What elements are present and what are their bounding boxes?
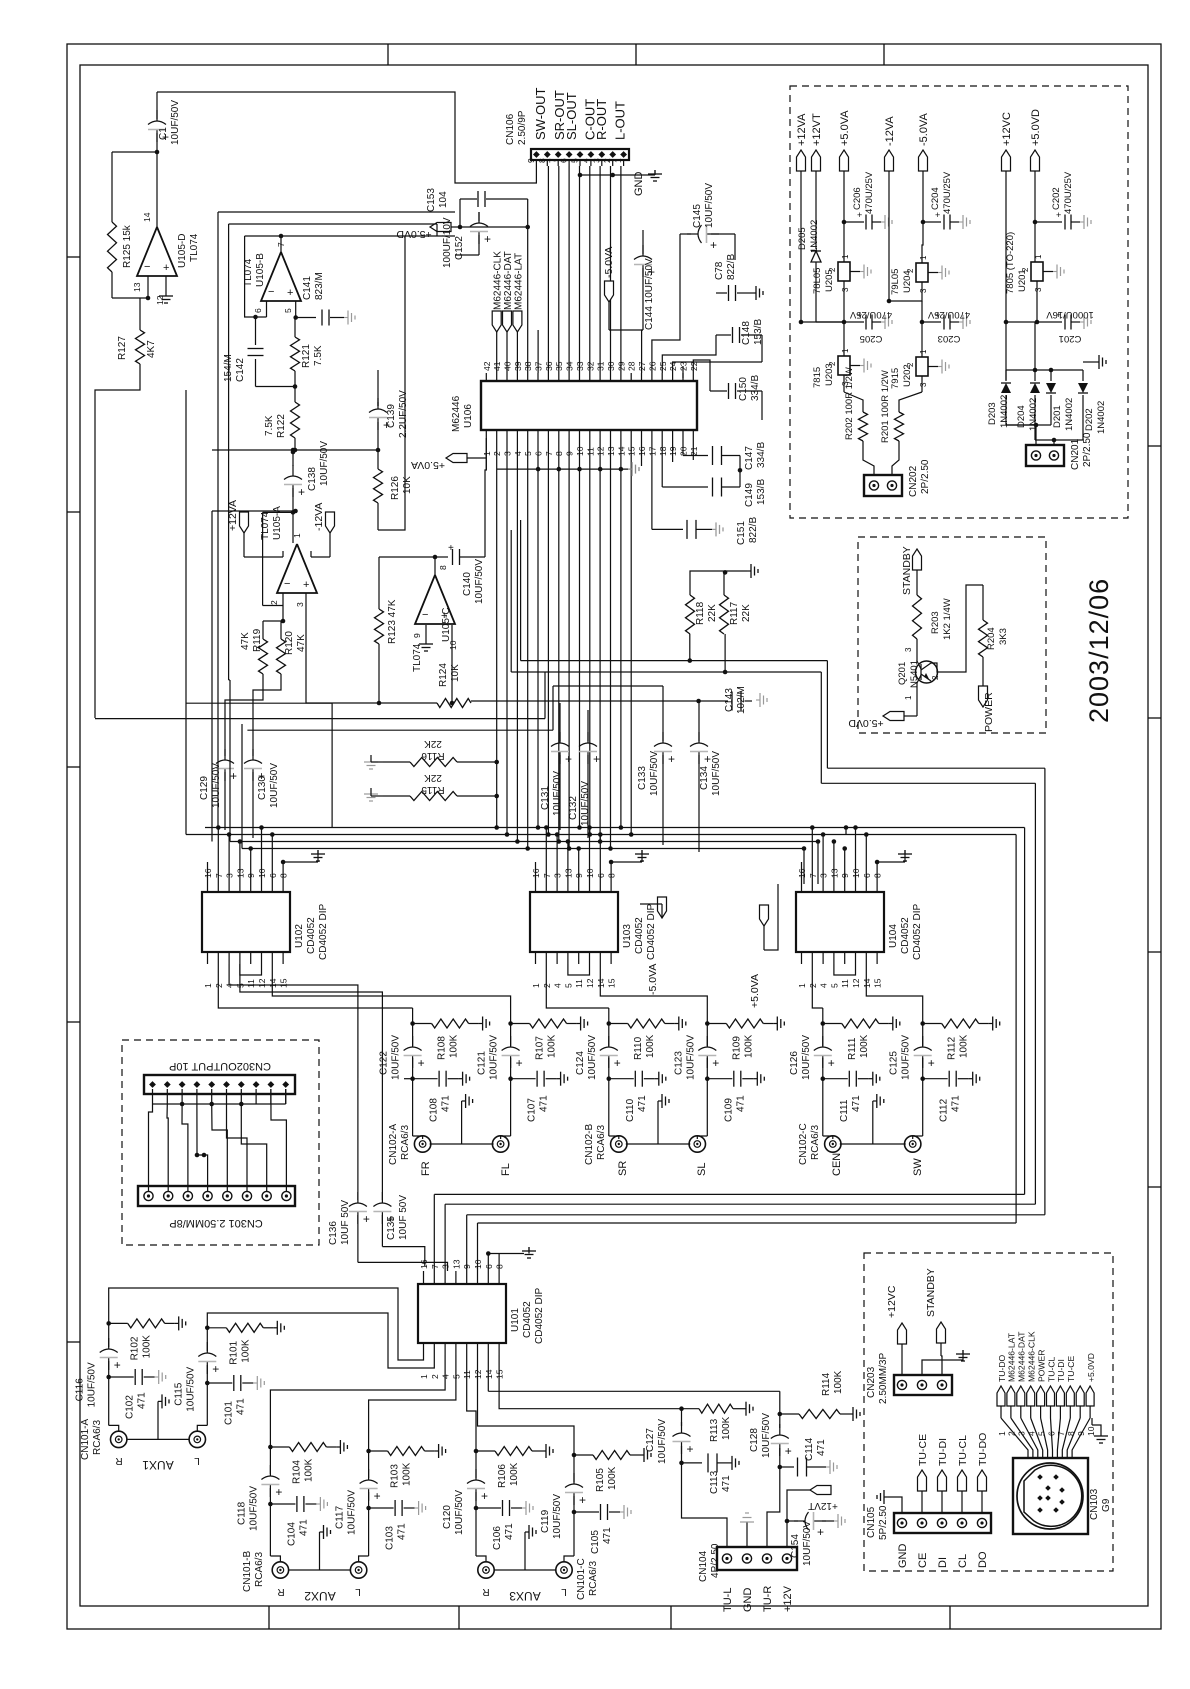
svg-text:4: 4 xyxy=(580,158,590,163)
svg-text:22K: 22K xyxy=(707,604,718,622)
svg-text:STANDBY: STANDBY xyxy=(925,1268,937,1317)
svg-text:1: 1 xyxy=(904,695,913,700)
svg-text:R201 100R 1/2W: R201 100R 1/2W xyxy=(880,370,891,443)
svg-text:−: − xyxy=(284,578,290,590)
svg-text:100K: 100K xyxy=(547,1034,558,1058)
svg-text:471: 471 xyxy=(441,1095,452,1112)
svg-text:+: + xyxy=(704,752,711,766)
svg-text:7: 7 xyxy=(1056,1431,1066,1436)
svg-text:8: 8 xyxy=(537,158,547,163)
svg-text:471: 471 xyxy=(539,1095,550,1112)
svg-text:10UF/50V: 10UF/50V xyxy=(454,1490,465,1535)
svg-text:10UF/50V: 10UF/50V xyxy=(347,1490,358,1535)
svg-text:R115: R115 xyxy=(421,784,445,795)
svg-text:C148: C148 xyxy=(741,321,752,345)
svg-text:+5.0VD: +5.0VD xyxy=(848,717,884,729)
svg-text:+: + xyxy=(935,210,940,220)
svg-text:C145: C145 xyxy=(692,204,703,228)
svg-text:M62446-LAT: M62446-LAT xyxy=(513,253,524,310)
svg-text:4: 4 xyxy=(553,983,563,988)
svg-text:C134: C134 xyxy=(699,766,710,790)
svg-text:+: + xyxy=(230,769,237,783)
svg-text:C108: C108 xyxy=(429,1098,440,1122)
svg-text:R204: R204 xyxy=(986,627,997,650)
svg-text:471: 471 xyxy=(235,1398,246,1415)
svg-text:3K3: 3K3 xyxy=(998,628,1009,645)
svg-text:10UF/50V: 10UF/50V xyxy=(269,763,280,808)
svg-text:8: 8 xyxy=(438,565,448,570)
svg-text:7815: 7815 xyxy=(812,367,823,388)
svg-text:SL: SL xyxy=(696,1163,708,1176)
svg-text:R118: R118 xyxy=(695,601,706,625)
svg-text:C139: C139 xyxy=(386,404,397,428)
svg-text:+: + xyxy=(516,1056,523,1070)
svg-text:11: 11 xyxy=(840,979,850,988)
svg-text:100K: 100K xyxy=(509,1462,520,1486)
svg-text:10UF/50V: 10UF/50V xyxy=(474,559,485,604)
svg-text:M62446-CLK: M62446-CLK xyxy=(1027,1331,1037,1382)
svg-text:+: + xyxy=(712,1056,719,1070)
svg-text:10UF/50V: 10UF/50V xyxy=(711,751,722,796)
svg-text:14: 14 xyxy=(142,212,152,222)
svg-text:CN203: CN203 xyxy=(866,1366,877,1398)
svg-text:L: L xyxy=(561,1586,567,1597)
svg-text:5: 5 xyxy=(570,158,580,163)
svg-text:C128: C128 xyxy=(749,1428,760,1452)
svg-text:R116: R116 xyxy=(421,750,445,761)
svg-text:C150: C150 xyxy=(738,377,749,401)
svg-text:C206: C206 xyxy=(852,187,863,210)
svg-text:10: 10 xyxy=(448,640,458,650)
svg-text:R124: R124 xyxy=(438,663,449,687)
svg-text:C104: C104 xyxy=(286,1522,297,1546)
svg-text:15: 15 xyxy=(873,978,883,988)
svg-text:2P/2.50: 2P/2.50 xyxy=(1082,432,1093,467)
svg-text:1N4002: 1N4002 xyxy=(809,220,820,253)
svg-text:C123: C123 xyxy=(673,1051,684,1075)
svg-text:R: R xyxy=(115,1455,122,1466)
svg-text:470U/25V: 470U/25V xyxy=(1063,171,1074,214)
svg-text:10: 10 xyxy=(473,1259,483,1269)
svg-text:3: 3 xyxy=(1034,287,1043,292)
svg-text:D203: D203 xyxy=(987,402,998,425)
svg-text:R126: R126 xyxy=(390,476,401,500)
svg-text:471: 471 xyxy=(851,1095,862,1112)
svg-text:10UF/50V: 10UF/50V xyxy=(802,1521,813,1566)
svg-text:CN102-B: CN102-B xyxy=(584,1124,595,1165)
svg-text:3: 3 xyxy=(841,287,850,292)
svg-text:100K: 100K xyxy=(833,1370,844,1394)
svg-text:C102: C102 xyxy=(125,1395,136,1419)
svg-text:C122: C122 xyxy=(379,1051,390,1075)
svg-text:470U/25V: 470U/25V xyxy=(864,171,875,214)
svg-text:3: 3 xyxy=(919,288,928,293)
svg-text:C138: C138 xyxy=(307,467,318,491)
svg-text:3: 3 xyxy=(919,382,928,387)
svg-text:C119: C119 xyxy=(540,1509,551,1533)
svg-text:+12VT: +12VT xyxy=(808,1500,838,1511)
svg-text:TU-CL: TU-CL xyxy=(1046,1356,1056,1382)
svg-text:+: + xyxy=(614,1056,621,1070)
svg-text:471: 471 xyxy=(602,1527,613,1544)
svg-text:RCA6/3: RCA6/3 xyxy=(588,1561,599,1596)
svg-text:R125 15k: R125 15k xyxy=(122,224,133,268)
svg-text:TU-CE: TU-CE xyxy=(917,1434,929,1466)
svg-text:TL074: TL074 xyxy=(189,233,200,262)
svg-text:6: 6 xyxy=(559,158,569,163)
svg-text:7915: 7915 xyxy=(890,368,901,389)
svg-text:11: 11 xyxy=(574,979,584,988)
svg-text:+5.0VA: +5.0VA xyxy=(839,110,851,146)
svg-text:C109: C109 xyxy=(723,1098,734,1122)
svg-text:+: + xyxy=(928,1056,935,1070)
svg-text:N5401: N5401 xyxy=(909,660,920,688)
svg-text:TU-DO: TU-DO xyxy=(977,1433,989,1466)
svg-text:R114: R114 xyxy=(821,1372,832,1396)
svg-text:13: 13 xyxy=(451,1259,461,1269)
svg-text:100K: 100K xyxy=(402,1462,413,1486)
svg-text:470U/25V: 470U/25V xyxy=(927,309,970,320)
svg-text:5: 5 xyxy=(829,983,839,988)
svg-text:CN103: CN103 xyxy=(1089,1488,1100,1520)
svg-text:C149: C149 xyxy=(744,483,755,507)
svg-text:1: 1 xyxy=(919,349,928,354)
svg-text:+5.0VD: +5.0VD xyxy=(1086,1353,1096,1382)
svg-text:DO: DO xyxy=(977,1551,989,1568)
svg-text:10UF 50V: 10UF 50V xyxy=(340,1200,351,1245)
svg-text:-12VA: -12VA xyxy=(884,116,896,146)
svg-text:+: + xyxy=(593,752,600,766)
svg-text:+: + xyxy=(484,232,491,246)
svg-text:-12VA: -12VA xyxy=(313,503,325,531)
svg-text:7.5K: 7.5K xyxy=(313,345,324,366)
svg-text:7.5K: 7.5K xyxy=(264,415,275,436)
svg-text:15: 15 xyxy=(279,978,289,988)
svg-text:1: 1 xyxy=(613,158,623,163)
svg-text:+: + xyxy=(828,1056,835,1070)
svg-text:2: 2 xyxy=(269,600,279,605)
svg-text:RCA6/3: RCA6/3 xyxy=(400,1125,411,1160)
svg-text:FR: FR xyxy=(420,1161,432,1176)
svg-text:100K: 100K xyxy=(743,1034,754,1058)
svg-text:C136: C136 xyxy=(328,1221,339,1245)
svg-text:GND: GND xyxy=(897,1544,909,1569)
svg-text:+12VT: +12VT xyxy=(811,113,823,146)
svg-text:TL074: TL074 xyxy=(412,643,423,672)
svg-text:C203: C203 xyxy=(938,333,961,344)
svg-text:C127: C127 xyxy=(645,1428,656,1452)
svg-text:SW: SW xyxy=(912,1158,924,1176)
svg-text:1N4002: 1N4002 xyxy=(1096,401,1107,434)
svg-text:RCA6/3: RCA6/3 xyxy=(92,1420,103,1455)
svg-text:10UF/50V: 10UF/50V xyxy=(685,1035,696,1080)
svg-text:-5.0VA: -5.0VA xyxy=(647,964,659,995)
svg-text:100K: 100K xyxy=(303,1458,314,1482)
svg-text:CN104: CN104 xyxy=(698,1550,709,1582)
svg-text:9: 9 xyxy=(412,633,422,638)
svg-text:-5.0VA: -5.0VA xyxy=(918,113,930,146)
svg-text:M62446-LAT: M62446-LAT xyxy=(1007,1332,1017,1382)
svg-text:CN301 2.50MM/8P: CN301 2.50MM/8P xyxy=(169,1217,263,1229)
svg-text:C143: C143 xyxy=(724,688,735,712)
svg-text:FL: FL xyxy=(500,1163,512,1176)
svg-text:R105: R105 xyxy=(595,1468,606,1492)
svg-text:C126: C126 xyxy=(789,1051,800,1075)
svg-text:7: 7 xyxy=(276,242,286,247)
svg-text:C144 10UF/50V: C144 10UF/50V xyxy=(644,258,655,330)
svg-text:1000U/16V: 1000U/16V xyxy=(1046,309,1094,320)
svg-text:CN101-A: CN101-A xyxy=(80,1419,91,1460)
svg-text:+5.0VD: +5.0VD xyxy=(396,228,432,240)
svg-text:Q201: Q201 xyxy=(897,662,908,685)
svg-text:U105-C: U105-C xyxy=(441,608,452,642)
svg-text:U106: U106 xyxy=(463,404,474,428)
svg-text:C201: C201 xyxy=(1059,333,1082,344)
svg-text:R103: R103 xyxy=(390,1464,401,1488)
svg-text:+12V: +12V xyxy=(782,1585,794,1612)
svg-text:2.50MM/3P: 2.50MM/3P xyxy=(878,1353,889,1404)
svg-text:+: + xyxy=(303,579,309,591)
svg-text:+12VC: +12VC xyxy=(1001,112,1013,146)
svg-text:153/B: 153/B xyxy=(756,479,767,505)
svg-text:R119: R119 xyxy=(252,628,263,652)
svg-text:3: 3 xyxy=(904,647,913,652)
svg-text:M62446: M62446 xyxy=(451,395,462,432)
svg-text:C154: C154 xyxy=(790,1534,801,1558)
svg-text:7805 (TO-220): 7805 (TO-220) xyxy=(1005,232,1016,294)
svg-text:22K: 22K xyxy=(424,772,442,783)
svg-text:−: − xyxy=(268,286,274,298)
svg-text:C147: C147 xyxy=(744,446,755,470)
svg-text:CL: CL xyxy=(957,1554,969,1568)
svg-text:CD4052: CD4052 xyxy=(306,917,317,954)
svg-text:CD4052 DIP: CD4052 DIP xyxy=(646,904,657,960)
svg-text:R117: R117 xyxy=(729,601,740,625)
svg-text:823/M: 823/M xyxy=(314,272,325,300)
svg-text:4P/2.50: 4P/2.50 xyxy=(710,1543,721,1578)
svg-text:+: + xyxy=(1056,210,1061,220)
svg-text:L-OUT: L-OUT xyxy=(613,101,628,140)
svg-text:1: 1 xyxy=(841,254,850,259)
svg-text:U104: U104 xyxy=(888,924,899,948)
svg-text:RCA6/3: RCA6/3 xyxy=(596,1125,607,1160)
svg-text:C205: C205 xyxy=(860,333,883,344)
svg-text:822/B: 822/B xyxy=(726,254,737,280)
svg-text:C152: C152 xyxy=(454,236,465,260)
svg-text:10UF/50V: 10UF/50V xyxy=(170,100,181,145)
svg-text:334/B: 334/B xyxy=(750,375,761,401)
svg-text:1: 1 xyxy=(797,983,807,988)
svg-text:C121: C121 xyxy=(477,1051,488,1075)
svg-text:CD4052 DIP: CD4052 DIP xyxy=(912,904,923,960)
svg-text:+: + xyxy=(565,752,572,766)
svg-text:SR: SR xyxy=(617,1161,629,1176)
svg-text:+: + xyxy=(687,1442,694,1456)
svg-text:STANDBY: STANDBY xyxy=(901,546,913,595)
svg-text:AUX3: AUX3 xyxy=(509,1589,541,1603)
svg-text:100K: 100K xyxy=(859,1034,870,1058)
svg-text:C107: C107 xyxy=(527,1098,538,1122)
svg-text:R-OUT: R-OUT xyxy=(594,99,609,140)
svg-text:C110: C110 xyxy=(625,1098,636,1122)
svg-text:4K7: 4K7 xyxy=(146,340,157,358)
svg-text:POWER: POWER xyxy=(1036,1350,1046,1382)
svg-text:R112: R112 xyxy=(947,1036,958,1060)
svg-text:2: 2 xyxy=(931,675,940,680)
svg-text:C151: C151 xyxy=(736,521,747,545)
svg-text:R203: R203 xyxy=(930,611,941,634)
svg-text:1: 1 xyxy=(419,1374,429,1379)
svg-text:10UF/50V: 10UF/50V xyxy=(489,1035,500,1080)
svg-text:3: 3 xyxy=(1017,1431,1027,1436)
svg-text:C114: C114 xyxy=(804,1437,815,1461)
svg-text:CN106: CN106 xyxy=(505,113,516,145)
svg-text:10UF/50V: 10UF/50V xyxy=(185,1366,196,1411)
svg-text:C131: C131 xyxy=(540,786,551,810)
svg-text:R202 100R 1/2W: R202 100R 1/2W xyxy=(844,367,855,440)
svg-text:47K: 47K xyxy=(240,632,251,650)
svg-text:R106: R106 xyxy=(497,1464,508,1488)
svg-text:+: + xyxy=(212,1362,219,1376)
svg-text:DI: DI xyxy=(937,1557,949,1568)
svg-text:22K: 22K xyxy=(424,738,442,749)
svg-text:13: 13 xyxy=(132,282,142,292)
svg-text:C135: C135 xyxy=(386,1216,397,1240)
svg-text:C120: C120 xyxy=(442,1505,453,1529)
svg-text:+: + xyxy=(374,1489,381,1503)
svg-text:7: 7 xyxy=(430,1264,440,1269)
svg-text:C202: C202 xyxy=(1051,187,1062,210)
svg-text:R113: R113 xyxy=(709,1418,720,1442)
svg-text:10UF/50V: 10UF/50V xyxy=(587,1035,598,1080)
svg-text:C141: C141 xyxy=(302,276,313,300)
svg-text:CD4052 DIP: CD4052 DIP xyxy=(534,1288,545,1344)
svg-text:334/B: 334/B xyxy=(756,442,767,468)
svg-text:R107: R107 xyxy=(535,1036,546,1060)
svg-text:1: 1 xyxy=(919,255,928,260)
svg-text:10K: 10K xyxy=(402,476,413,494)
svg-text:U103: U103 xyxy=(622,924,633,948)
svg-text:CD4052: CD4052 xyxy=(522,1301,533,1338)
svg-text:12: 12 xyxy=(585,978,595,988)
svg-text:+: + xyxy=(275,1485,282,1499)
svg-text:10UF/50V: 10UF/50V xyxy=(211,763,222,808)
svg-text:10: 10 xyxy=(1086,1426,1096,1436)
svg-text:D201: D201 xyxy=(1052,405,1063,428)
svg-text:2: 2 xyxy=(906,362,915,367)
svg-text:R123 47K: R123 47K xyxy=(387,599,398,644)
svg-text:GND: GND xyxy=(633,172,645,197)
svg-text:1N4002: 1N4002 xyxy=(1064,398,1075,431)
svg-text:1: 1 xyxy=(203,983,213,988)
svg-text:4: 4 xyxy=(819,983,829,988)
svg-text:5: 5 xyxy=(283,308,293,313)
svg-text:GND: GND xyxy=(742,1588,754,1613)
svg-text:CN302OUTPUT 10P: CN302OUTPUT 10P xyxy=(169,1060,271,1072)
svg-text:28: 28 xyxy=(627,361,637,371)
svg-text:1: 1 xyxy=(531,983,541,988)
svg-text:RCA6/3: RCA6/3 xyxy=(810,1125,821,1160)
svg-text:+: + xyxy=(287,287,293,299)
svg-text:3: 3 xyxy=(295,602,305,607)
svg-text:471: 471 xyxy=(137,1392,148,1409)
svg-text:G9: G9 xyxy=(1101,1498,1112,1512)
svg-text:AUX2: AUX2 xyxy=(304,1589,336,1603)
svg-text:16: 16 xyxy=(419,1259,429,1269)
svg-text:1: 1 xyxy=(997,1431,1007,1436)
svg-text:10UF 50V: 10UF 50V xyxy=(398,1195,409,1240)
svg-text:5P/2.50: 5P/2.50 xyxy=(878,1505,889,1540)
svg-text:78L05: 78L05 xyxy=(812,268,823,294)
svg-text:10UF/50V: 10UF/50V xyxy=(901,1035,912,1080)
svg-text:CD4052: CD4052 xyxy=(900,917,911,954)
svg-text:R109: R109 xyxy=(731,1036,742,1060)
svg-text:2: 2 xyxy=(906,268,915,273)
svg-text:104: 104 xyxy=(438,191,449,208)
svg-text:10UF/50V: 10UF/50V xyxy=(319,441,330,486)
svg-text:C111: C111 xyxy=(839,1099,850,1122)
svg-text:+5.0VA: +5.0VA xyxy=(411,459,445,471)
svg-text:822/B: 822/B xyxy=(748,517,759,543)
svg-text:R102: R102 xyxy=(130,1336,141,1360)
svg-text:10UF/50V: 10UF/50V xyxy=(552,1494,563,1539)
svg-text:M62446-DAT: M62446-DAT xyxy=(503,251,514,310)
svg-text:C132: C132 xyxy=(568,796,579,820)
svg-text:15: 15 xyxy=(607,978,617,988)
svg-text:+: + xyxy=(668,752,675,766)
svg-text:1K2 1/4W: 1K2 1/4W xyxy=(942,598,953,640)
svg-text:+: + xyxy=(481,1489,488,1503)
svg-text:U105-D: U105-D xyxy=(177,234,188,268)
svg-text:TU-DO: TU-DO xyxy=(997,1354,1007,1382)
svg-text:2.50/9P: 2.50/9P xyxy=(517,110,528,145)
svg-text:POWER: POWER xyxy=(983,692,995,732)
svg-text:L: L xyxy=(194,1455,200,1466)
svg-text:100K: 100K xyxy=(240,1339,251,1363)
svg-text:R108: R108 xyxy=(437,1036,448,1060)
svg-text:CD4052 DIP: CD4052 DIP xyxy=(318,904,329,960)
svg-text:5: 5 xyxy=(563,983,573,988)
svg-text:C78: C78 xyxy=(714,261,725,280)
svg-text:R: R xyxy=(277,1586,284,1597)
svg-text:471: 471 xyxy=(735,1095,746,1112)
svg-text:U102: U102 xyxy=(294,924,305,948)
svg-text:471: 471 xyxy=(721,1475,732,1492)
svg-text:TL074: TL074 xyxy=(260,511,271,540)
svg-text:+: + xyxy=(418,1056,425,1070)
svg-text:R122: R122 xyxy=(276,414,287,438)
svg-text:C117: C117 xyxy=(335,1505,346,1529)
svg-text:47K: 47K xyxy=(296,634,307,652)
svg-text:CN101-B: CN101-B xyxy=(242,1551,253,1592)
svg-text:CN202: CN202 xyxy=(908,465,919,497)
svg-text:C1: C1 xyxy=(158,127,169,140)
svg-text:TU-L: TU-L xyxy=(722,1588,734,1612)
svg-text:U101: U101 xyxy=(510,1308,521,1332)
svg-text:+: + xyxy=(298,485,305,499)
svg-text:TU-R: TU-R xyxy=(762,1586,774,1612)
svg-text:C129: C129 xyxy=(199,776,210,800)
svg-text:10UF/50V: 10UF/50V xyxy=(649,751,660,796)
svg-text:TU-CE: TU-CE xyxy=(1066,1355,1076,1382)
svg-text:102/M: 102/M xyxy=(736,686,747,714)
svg-text:M62446-DAT: M62446-DAT xyxy=(1017,1331,1027,1382)
svg-text:D202: D202 xyxy=(1084,408,1095,431)
svg-text:3: 3 xyxy=(441,1264,451,1269)
svg-text:7: 7 xyxy=(548,158,558,163)
svg-text:9: 9 xyxy=(462,1264,472,1269)
svg-text:10UF/50V: 10UF/50V xyxy=(761,1413,772,1458)
